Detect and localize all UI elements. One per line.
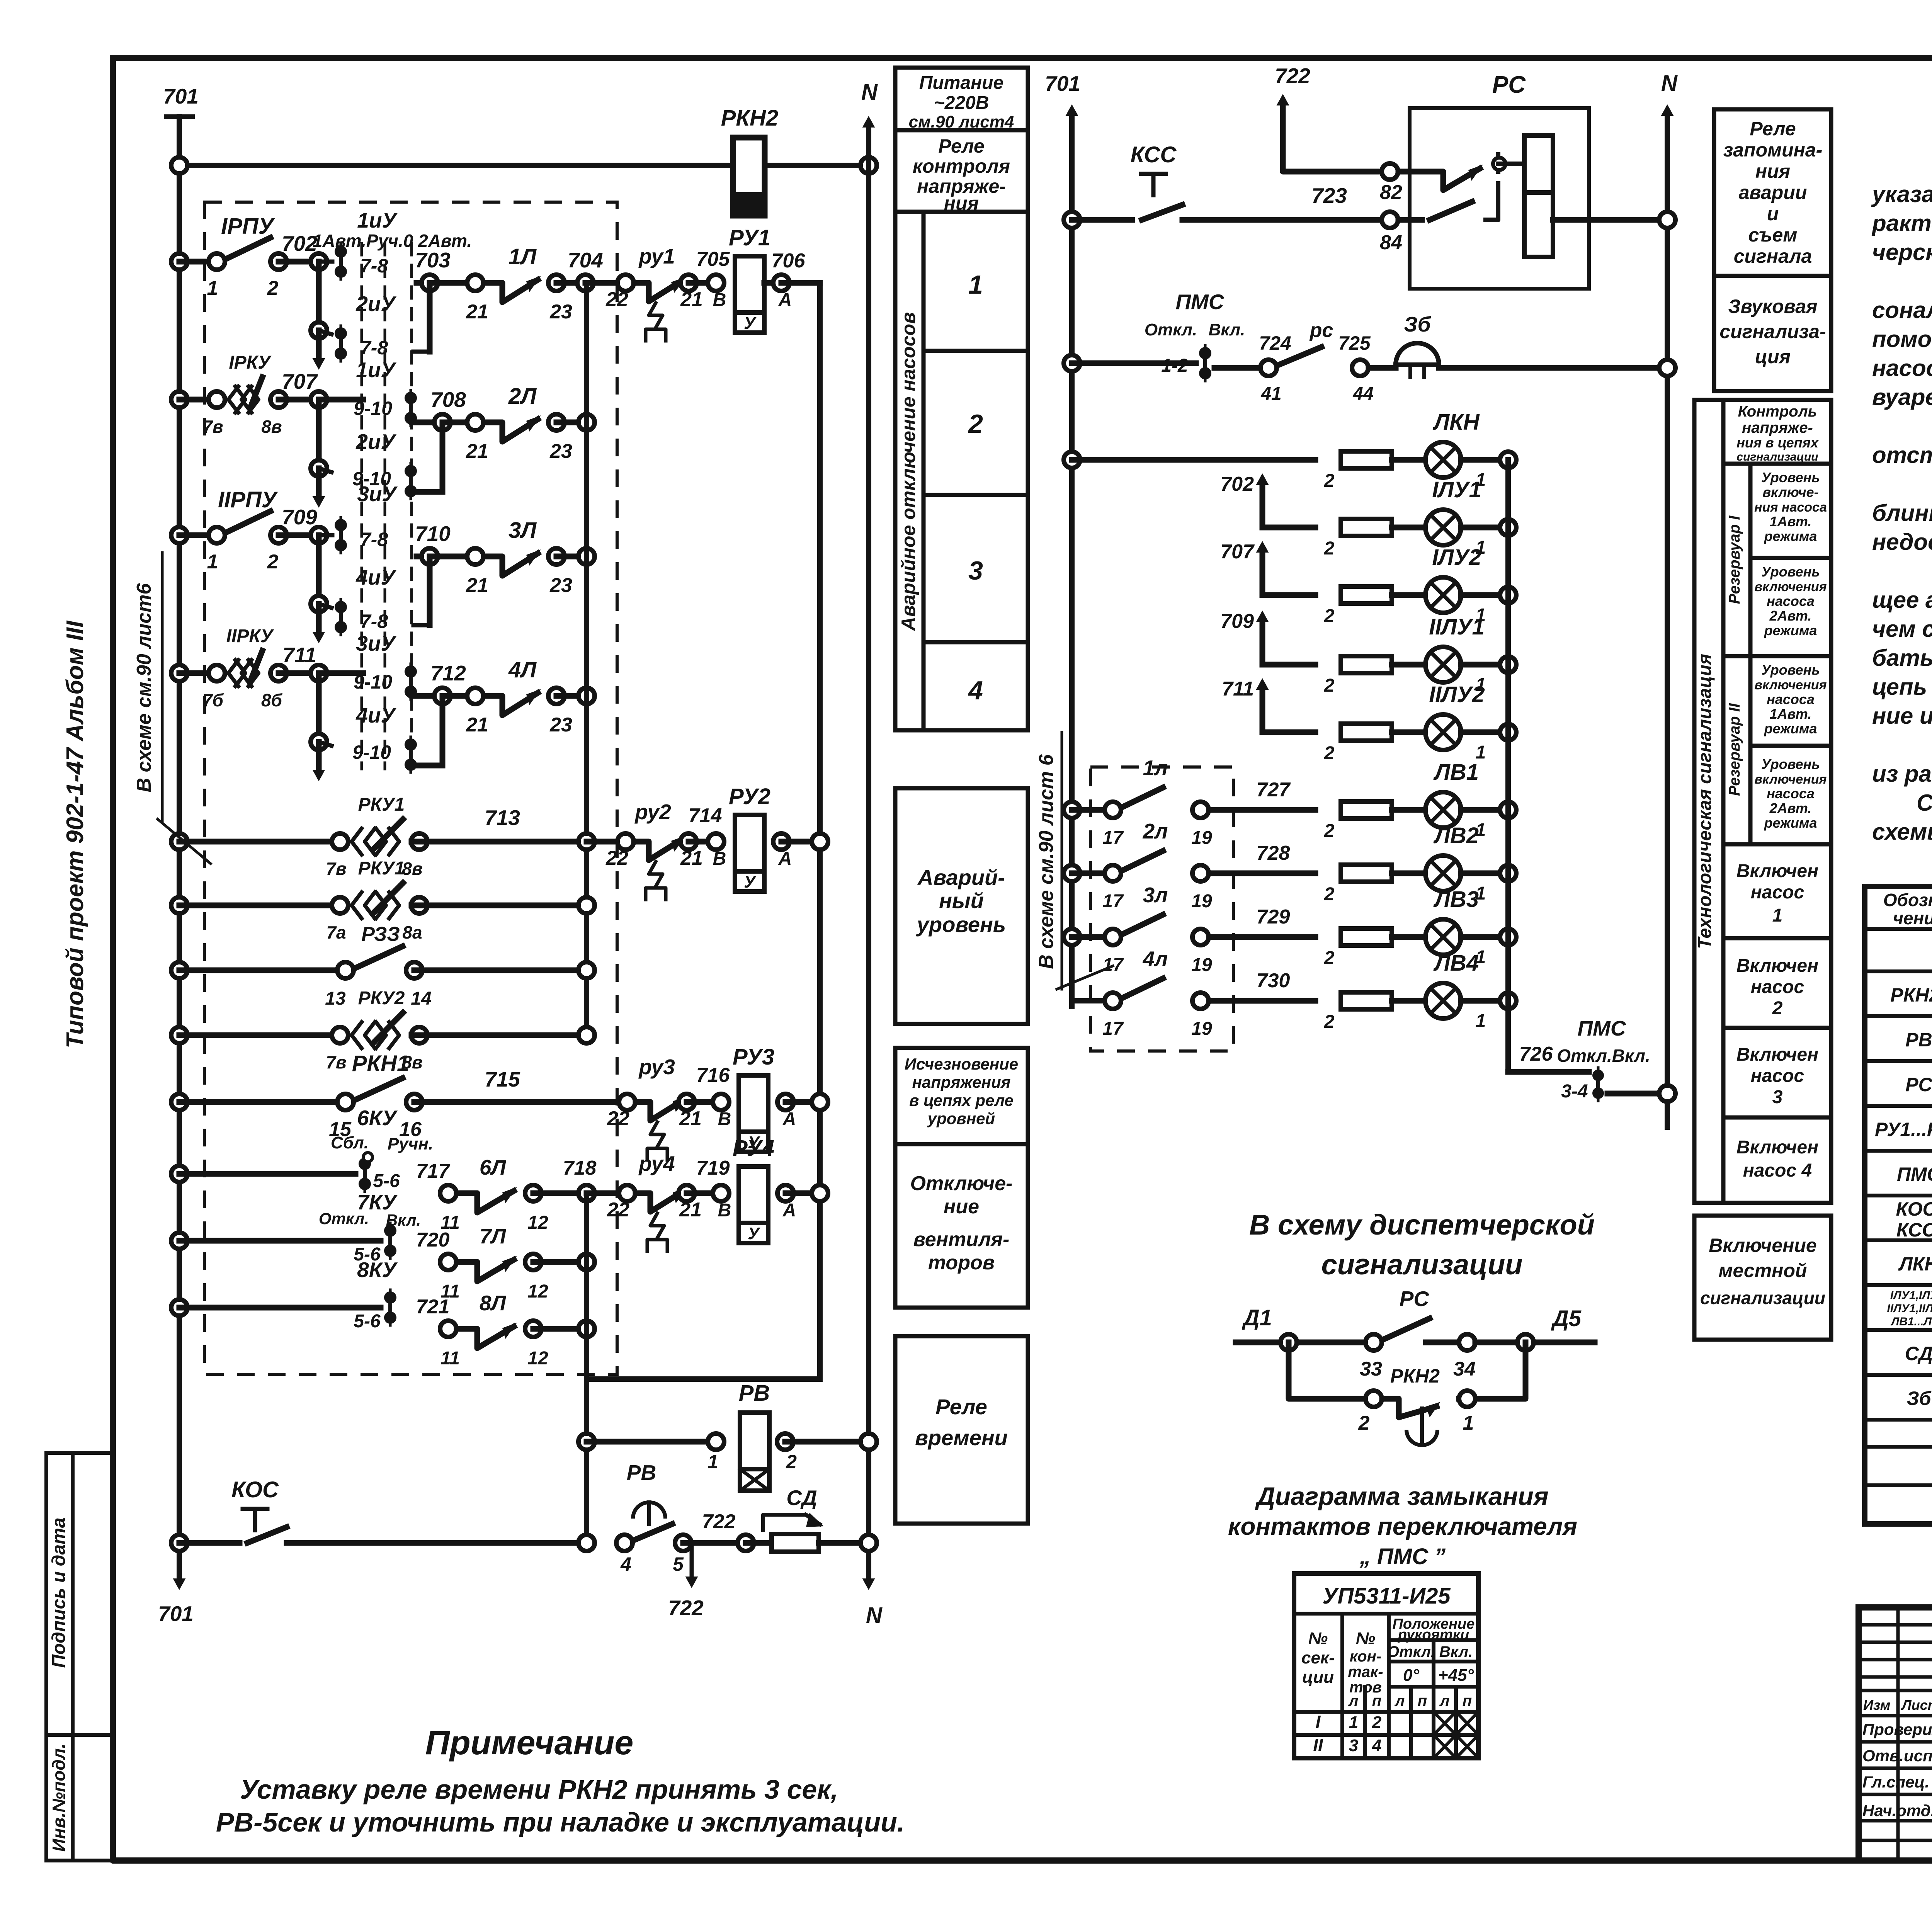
svg-text:ЛВ4: ЛВ4 <box>1433 951 1479 976</box>
resistor (ballast) IIЛУ1 row <box>1324 656 1392 696</box>
svg-text:насоса: насоса <box>1767 691 1815 707</box>
label Реле контроля напряжения <box>913 135 1010 214</box>
svg-text:726: 726 <box>1519 1043 1553 1065</box>
wire 726 to ПМС 3-4 <box>1508 1043 1589 1072</box>
label Исчезновение напряжения <box>905 1055 1018 1128</box>
lamp ЛВ4 <box>1392 951 1516 1031</box>
svg-text:уровень: уровень <box>916 912 1006 937</box>
svg-text:723: 723 <box>1311 184 1347 207</box>
label Инв.№подл. (rotated) <box>49 1743 69 1852</box>
svg-text:8б: 8б <box>261 690 283 710</box>
svg-text:СД: СД <box>786 1486 817 1510</box>
svg-text:7-8: 7-8 <box>360 337 388 359</box>
svg-text:РУ1...РУ4: РУ1...РУ4 <box>1875 1119 1932 1140</box>
component table (ЩУС) <box>1865 886 1932 1524</box>
svg-text:РВ: РВ <box>739 1381 770 1406</box>
svg-text:ния: ния <box>944 192 979 214</box>
wire elbow to lamp row 2 <box>411 692 434 696</box>
svg-text:В: В <box>713 849 726 869</box>
resistor ЛВ2 row <box>1324 865 1392 905</box>
contact ру1 22-21 <box>605 244 703 341</box>
svg-text:718: 718 <box>563 1157 597 1179</box>
svg-text:14: 14 <box>411 988 431 1009</box>
svg-text:л: л <box>1439 1692 1450 1709</box>
svg-text:706: 706 <box>772 250 806 272</box>
contact 1иУ 9-10 <box>354 358 417 426</box>
label Отключение вентиляторов <box>910 1172 1013 1274</box>
svg-text:4: 4 <box>968 676 983 705</box>
svg-text:черской сигнализации.: черской сигнализации. <box>1872 239 1932 265</box>
svg-text:ру4: ру4 <box>638 1151 675 1175</box>
svg-text:РВ-5сек и уточнить при наладк: РВ-5сек и уточнить при наладке и эксплуа… <box>216 1807 905 1837</box>
junction on 701 rail for ЛВ3 <box>1064 929 1104 945</box>
svg-text:насоса: насоса <box>1767 786 1815 801</box>
lamp IIЛУ1 <box>1392 614 1516 695</box>
svg-text:1Авт.: 1Авт. <box>1770 514 1812 529</box>
svg-text:7в: 7в <box>326 859 346 879</box>
node label N (top) <box>861 80 878 105</box>
svg-text:А: А <box>782 1109 796 1129</box>
contact IIРКУ <box>171 626 287 710</box>
svg-text:701: 701 <box>1045 71 1080 95</box>
svg-text:9-10: 9-10 <box>354 671 392 693</box>
lamp bus vertical <box>1505 460 1511 1072</box>
contact 3Л 21-23 <box>430 518 595 597</box>
contact IРПУ <box>171 214 287 299</box>
svg-text:кон-: кон- <box>1350 1648 1381 1665</box>
svg-text:В: В <box>718 1200 731 1221</box>
svg-text:включения: включения <box>1754 678 1827 692</box>
svg-text:8Л: 8Л <box>480 1291 507 1315</box>
svg-text:4л: 4л <box>1143 947 1168 971</box>
svg-text:Реле: Реле <box>1750 118 1796 139</box>
label Включение местной сигнализации <box>1700 1235 1825 1308</box>
svg-text:IIЛУ2: IIЛУ2 <box>1429 682 1485 707</box>
svg-text:3л: 3л <box>1143 883 1168 907</box>
svg-text:Ручн.: Ручн. <box>388 1134 433 1153</box>
wire dropper (arrow) <box>311 400 332 476</box>
svg-text:ции: ции <box>1302 1668 1334 1687</box>
svg-text:22: 22 <box>607 1199 629 1221</box>
svg-text:Резервуар I: Резервуар I <box>1726 515 1743 604</box>
svg-text:Изм: Изм <box>1863 1697 1890 1713</box>
svg-text:РУ1: РУ1 <box>729 225 770 250</box>
svg-text:сигнализа-: сигнализа- <box>1719 321 1826 342</box>
svg-text:2: 2 <box>1324 606 1335 626</box>
svg-text:В схему диспетчерской: В схему диспетчерской <box>1249 1209 1595 1241</box>
svg-text:701: 701 <box>163 84 199 108</box>
label 4иУ 9-10 (lower contact) <box>352 703 397 763</box>
svg-text:2: 2 <box>1324 884 1335 905</box>
svg-text:Д5: Д5 <box>1551 1306 1582 1331</box>
ПМС contact diagram table <box>1294 1573 1478 1758</box>
wire collector A upper <box>584 283 589 1035</box>
svg-text:11: 11 <box>440 1348 460 1369</box>
svg-text:ция: ция <box>1755 346 1791 367</box>
svg-text:19: 19 <box>1191 828 1212 848</box>
svg-text:2иУ: 2иУ <box>355 430 396 454</box>
svg-text:17: 17 <box>1102 955 1124 975</box>
junction on N rail at top bus <box>861 157 877 173</box>
svg-text:II: II <box>1313 1735 1323 1755</box>
svg-text:РВ: РВ <box>1905 1029 1932 1051</box>
svg-text:в цепях реле: в цепях реле <box>909 1091 1014 1109</box>
svg-text:насос: насос <box>1751 882 1804 903</box>
contact 3л 17-19 <box>1102 883 1315 975</box>
svg-text:2: 2 <box>1324 675 1335 696</box>
svg-text:режима: режима <box>1764 815 1817 831</box>
svg-text:IIЛУ1: IIЛУ1 <box>1429 614 1485 639</box>
svg-text:Д1: Д1 <box>1242 1305 1272 1330</box>
contact ру2 22-21 <box>587 800 722 900</box>
resistor (ballast) IIЛУ2 row <box>1324 724 1392 764</box>
label Уровень включения насоса 2 (рез.I) <box>1754 564 1827 638</box>
wire node 702 <box>279 231 327 270</box>
svg-text:Подпись и дата: Подпись и дата <box>49 1517 69 1668</box>
svg-text:33: 33 <box>1360 1358 1382 1380</box>
svg-text:9-10: 9-10 <box>352 742 391 763</box>
svg-text:ния: ния <box>1755 160 1790 182</box>
svg-text:23: 23 <box>549 440 572 463</box>
svg-text:Включен: Включен <box>1736 1137 1818 1158</box>
contact 7КУ 5-6 <box>171 1190 421 1265</box>
svg-text:Уровень: Уровень <box>1761 564 1820 580</box>
svg-text:8в: 8в <box>402 859 422 879</box>
svg-text:21: 21 <box>466 440 488 463</box>
svg-text:Примечание: Примечание <box>425 1723 634 1762</box>
svg-text:2иУ: 2иУ <box>355 292 396 316</box>
wire РС coil to N <box>1553 212 1675 228</box>
wire dropper to 2иУ contact <box>311 262 332 338</box>
svg-text:„ ПМС ”: „ ПМС ” <box>1359 1544 1446 1569</box>
resistor (ballast) ЛКН row <box>1324 451 1392 491</box>
svg-text:21: 21 <box>466 574 488 597</box>
svg-text:режима: режима <box>1764 528 1817 544</box>
label box 4 <box>968 676 983 705</box>
svg-text:А: А <box>782 1200 796 1221</box>
contact 4иУ 7-8 (switch column) <box>335 565 396 635</box>
svg-text:2Л: 2Л <box>508 384 537 409</box>
svg-text:728: 728 <box>1257 842 1290 864</box>
wire node 709 <box>279 505 327 543</box>
svg-text:2: 2 <box>1372 1713 1382 1732</box>
svg-text:1: 1 <box>1476 1011 1486 1031</box>
node label 701 (bottom) <box>158 1602 194 1626</box>
svg-text:Включение: Включение <box>1709 1235 1816 1256</box>
svg-text:725: 725 <box>1338 332 1371 354</box>
wire dropper to lower 9-10 <box>411 696 442 765</box>
svg-text:1: 1 <box>707 1451 718 1473</box>
relay box РС <box>1410 71 1589 289</box>
svg-text:N: N <box>861 80 878 105</box>
contact 1Л 21-23 <box>430 244 572 323</box>
svg-text:Откл.Вкл.: Откл.Вкл. <box>1557 1046 1650 1066</box>
svg-text:21: 21 <box>466 714 488 736</box>
svg-text:контактов переключателя: контактов переключателя <box>1228 1512 1577 1540</box>
svg-text:19: 19 <box>1191 891 1212 912</box>
svg-text:У: У <box>744 872 757 891</box>
bypass branch РКН2 <box>1289 1342 1526 1445</box>
svg-text:Аварийное отключение насосов: Аварийное отключение насосов <box>898 312 919 632</box>
ПМС table X marks <box>1434 1712 1478 1758</box>
svg-text:напряже-: напряже- <box>1742 419 1813 436</box>
svg-text:IЛУ1,IЛУ2,: IЛУ1,IЛУ2, <box>1890 1289 1932 1302</box>
svg-text:7-8: 7-8 <box>360 611 388 632</box>
svg-text:отстройку от ложных сигнало: отстройку от ложных сигналов и работает … <box>1872 442 1932 468</box>
svg-text:12: 12 <box>527 1213 548 1233</box>
svg-text:Откл.: Откл. <box>1145 320 1197 339</box>
svg-text:5: 5 <box>673 1553 684 1575</box>
label Аварийный уровень <box>916 865 1006 937</box>
svg-text:Аварий-: Аварий- <box>917 865 1005 889</box>
label Аварийное отключение насосов (rotated) <box>898 312 919 632</box>
svg-text:контроля: контроля <box>913 155 1010 177</box>
svg-text:п: п <box>1463 1692 1472 1709</box>
svg-text:сек-: сек- <box>1301 1648 1335 1667</box>
svg-text:Исчезновение: Исчезновение <box>905 1055 1018 1073</box>
svg-text:РУ3: РУ3 <box>733 1044 774 1070</box>
svg-text:ЛВ3: ЛВ3 <box>1433 887 1479 912</box>
svg-text:сонала схема позволяет осущест: сонала схема позволяет осуществить его з… <box>1872 297 1932 323</box>
svg-text:2Авт.: 2Авт. <box>1769 608 1812 624</box>
label Реле времени <box>915 1395 1008 1450</box>
svg-text:РКУ1: РКУ1 <box>358 794 405 815</box>
wire arrow down <box>313 604 325 643</box>
svg-text:Контроль: Контроль <box>1738 403 1817 420</box>
svg-text:7-8: 7-8 <box>360 255 388 277</box>
svg-text:2: 2 <box>1324 538 1335 559</box>
relay coil РКН2 <box>721 105 778 216</box>
svg-text:Диаграмма замыкания: Диаграмма замыкания <box>1255 1482 1548 1510</box>
lamp IЛУ2 <box>1392 545 1516 626</box>
relay coil РВ with timing box <box>578 1381 877 1491</box>
wire node 705 <box>689 248 730 310</box>
svg-text:22: 22 <box>605 288 628 311</box>
svg-text:5-6: 5-6 <box>354 1311 381 1332</box>
note В схеме см.90 лист6 (left, rotated) <box>133 553 211 864</box>
svg-text:1: 1 <box>207 277 218 299</box>
svg-text:п: п <box>1418 1692 1427 1709</box>
svg-text:730: 730 <box>1257 969 1290 992</box>
svg-text:720: 720 <box>416 1229 450 1251</box>
label Звуковая сигнализация <box>1719 296 1826 367</box>
lamp ЛВ3 <box>1392 887 1516 968</box>
svg-text:12: 12 <box>527 1281 548 1302</box>
label Включен насос 4 <box>1736 1137 1818 1181</box>
svg-text:рукоятки: рукоятки <box>1398 1627 1469 1643</box>
svg-text:23: 23 <box>549 714 572 736</box>
svg-text:4иУ: 4иУ <box>355 703 396 727</box>
svg-text:режима: режима <box>1764 721 1817 736</box>
svg-text:Проверил: Проверил <box>1862 1720 1932 1738</box>
label Питание 220В <box>909 73 1014 131</box>
svg-text:Уровень: Уровень <box>1761 756 1820 772</box>
contact 2иУ 9-10 (lower) <box>405 463 417 499</box>
svg-text:ЛКН: ЛКН <box>1898 1253 1932 1275</box>
svg-text:Вкл.: Вкл. <box>386 1211 421 1229</box>
svg-text:ПМС: ПМС <box>1897 1163 1932 1185</box>
svg-text:711: 711 <box>1222 678 1254 700</box>
svg-text:22: 22 <box>607 1107 629 1130</box>
svg-text:насос: насос <box>1751 977 1804 997</box>
svg-text:8а: 8а <box>402 922 422 942</box>
wire arrow down <box>313 742 325 781</box>
label Уровень включения насоса 1 (рез.II) <box>1754 662 1827 736</box>
svg-text:уровней: уровней <box>927 1109 995 1128</box>
svg-text:В схеме см.90 лист 6: В схеме см.90 лист 6 <box>1035 754 1058 969</box>
svg-text:729: 729 <box>1257 906 1290 928</box>
push-button КОС <box>171 1477 595 1551</box>
svg-text:и: и <box>1767 203 1779 224</box>
title block texts <box>1862 1617 1932 1864</box>
wire arrow stub 707 <box>1220 541 1315 595</box>
svg-text:ЛВ2: ЛВ2 <box>1433 823 1479 848</box>
svg-text:N: N <box>866 1603 883 1628</box>
contact ру4 22-21 <box>587 1151 730 1251</box>
svg-text:2Авт.: 2Авт. <box>1769 800 1812 816</box>
note heading Примечание <box>425 1723 634 1762</box>
wire РКН2 to N rail <box>765 163 869 168</box>
svg-text:КОС,: КОС, <box>1896 1198 1932 1220</box>
svg-text:717: 717 <box>416 1160 451 1182</box>
dashed enclosure (left switchgear box) <box>204 202 617 1374</box>
contact РКУ1 7а-8а <box>171 858 595 942</box>
wire Д1-Д5 <box>1236 1305 1382 1380</box>
svg-text:23: 23 <box>549 574 572 597</box>
top bus wire to РКН2 <box>171 157 733 173</box>
contact 4Л 21-23 <box>442 657 595 736</box>
svg-text:2: 2 <box>1772 998 1783 1019</box>
svg-text:включе-: включе- <box>1762 484 1818 500</box>
node label 701 (top) <box>163 84 199 108</box>
wire node 710 <box>415 522 451 565</box>
contact 2л 17-19 <box>1102 819 1315 912</box>
svg-text:ЛКН: ЛКН <box>1432 410 1480 435</box>
svg-text:1-2: 1-2 <box>1161 355 1188 376</box>
svg-text:710: 710 <box>415 522 451 546</box>
svg-text:17: 17 <box>1102 828 1124 848</box>
svg-text:Уровень: Уровень <box>1761 662 1820 678</box>
svg-text:Лист: Лист <box>1901 1697 1932 1713</box>
dashed selector-position columns <box>362 243 412 769</box>
svg-text:РВ: РВ <box>627 1461 656 1485</box>
svg-text:Съем сигнала производится к: Съем сигнала производится кнопкой КСС, о… <box>1917 790 1932 816</box>
svg-text:ЛВ1...ЛВ4: ЛВ1...ЛВ4 <box>1891 1315 1932 1328</box>
svg-text:л: л <box>1348 1692 1359 1709</box>
svg-text:707: 707 <box>1220 541 1255 563</box>
contact 8Л 11-12 <box>416 1291 595 1369</box>
svg-text:9-10: 9-10 <box>354 398 392 419</box>
label Уровень включения насоса 1 (рез.I) <box>1754 469 1827 544</box>
contact 4иУ 9-10 (lower) <box>405 737 417 772</box>
wire node 711 <box>279 643 363 681</box>
svg-text:насоса: насоса <box>1767 593 1815 609</box>
contact РС 84 (inside box) <box>1398 184 1498 220</box>
resistor ЛВ1 row <box>1324 801 1392 841</box>
push-button КСС <box>1064 142 1390 228</box>
svg-text:рс: рс <box>1309 319 1333 342</box>
contact 6Л 11-12 <box>416 1155 597 1233</box>
title block (штамп) <box>1859 1607 1932 1861</box>
svg-text:19: 19 <box>1191 1019 1212 1039</box>
svg-text:рактер неисправности и перед: рактер неисправности и передается сигнал… <box>1871 210 1932 236</box>
wire arrow stub 709 <box>1220 610 1315 665</box>
svg-text:2: 2 <box>1358 1412 1370 1434</box>
svg-text:1иУ: 1иУ <box>356 358 396 382</box>
contact РКУ1 7в-8в <box>171 794 595 879</box>
svg-text:1: 1 <box>1349 1713 1358 1732</box>
svg-text:батывания указательного реле.: батывания указательного реле. Последнее,… <box>1872 645 1932 671</box>
svg-text:ру2: ру2 <box>634 800 671 824</box>
svg-text:№: № <box>1308 1629 1328 1648</box>
lamp ЛКН <box>1392 410 1516 490</box>
wire node 703 <box>415 248 451 291</box>
bottom-left inventory strip boxes <box>46 1453 113 1861</box>
dashed box for pump aux contacts <box>1090 767 1233 1051</box>
contact ру3 22-21 <box>607 1055 730 1160</box>
label box 3 <box>968 556 983 585</box>
relay coil РУ4 <box>687 1136 828 1243</box>
note В схеме см.90 лист 6 (middle, rotated) <box>1035 732 1113 989</box>
svg-text:727: 727 <box>1257 779 1291 801</box>
svg-text:Технологическая сигнализация: Технологическая сигнализация <box>1695 654 1715 949</box>
svg-text:712: 712 <box>430 661 466 685</box>
svg-text:8КУ: 8КУ <box>357 1258 398 1282</box>
label box 2 <box>968 409 983 439</box>
svg-text:IIЛУ1,IIЛУ2,: IIЛУ1,IIЛУ2, <box>1887 1302 1932 1315</box>
table headers <box>1883 888 1932 930</box>
label Подпись и дата (rotated) <box>49 1517 69 1668</box>
svg-text:Зб: Зб <box>1404 312 1431 336</box>
svg-text:Включен: Включен <box>1736 1044 1818 1065</box>
contact 4л 17-19 <box>1102 947 1315 1039</box>
bus 701 vertical rail <box>166 117 192 1543</box>
svg-text:№: № <box>1356 1629 1375 1648</box>
svg-text:7в: 7в <box>202 417 223 437</box>
left margin project label (rotated) <box>62 620 88 1048</box>
svg-text:1: 1 <box>1463 1412 1474 1434</box>
label Реле запоминания аварии <box>1723 118 1823 267</box>
svg-text:ПМС: ПМС <box>1577 1016 1626 1040</box>
svg-text:местной: местной <box>1719 1260 1807 1281</box>
svg-text:Отв.исп.: Отв.исп. <box>1862 1747 1932 1765</box>
svg-text:82: 82 <box>1380 181 1402 204</box>
contact РС 41-44 <box>1214 319 1374 404</box>
contact 8КУ 5-6 <box>171 1258 398 1332</box>
node 82 <box>1380 163 1430 204</box>
wire jog from collector B to A <box>587 1376 820 1382</box>
contact 7Л 11-12 <box>416 1224 595 1302</box>
bell Зб <box>1369 312 1675 377</box>
label Включен насос 3 <box>1736 1044 1818 1107</box>
wire arrow down <box>313 468 325 508</box>
svg-text:ру3: ру3 <box>638 1055 675 1079</box>
svg-text:Типовой проект 902-1-47: Типовой проект 902-1-47 Альбом III <box>62 620 88 1048</box>
svg-text:4: 4 <box>1372 1736 1381 1755</box>
svg-text:запомина-: запомина- <box>1723 139 1823 161</box>
wire dropper from node <box>413 556 430 625</box>
junction on 701 rail for ЛВ1 <box>1064 802 1104 818</box>
svg-text:РУ2: РУ2 <box>729 784 770 809</box>
svg-text:Питание: Питание <box>919 73 1003 93</box>
svg-text:705: 705 <box>696 248 730 270</box>
svg-text:съем: съем <box>1748 224 1798 246</box>
svg-text:насосов перекачки стоков и ра: насосов перекачки стоков и рабочих уровн… <box>1872 355 1932 381</box>
svg-text:722: 722 <box>668 1596 704 1620</box>
rail 701 (middle) <box>1045 71 1080 1007</box>
svg-text:Уровень: Уровень <box>1761 469 1820 485</box>
svg-text:А: А <box>778 290 792 310</box>
